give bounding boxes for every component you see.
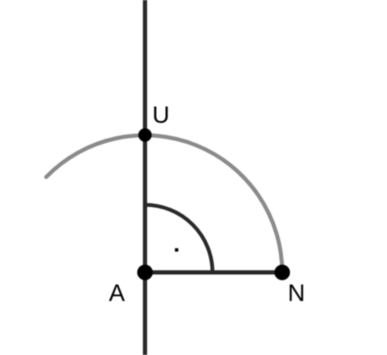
svg-text:A: A [109, 280, 125, 307]
segment A N [145, 270, 282, 274]
point U [138, 128, 151, 141]
svg-text:U: U [152, 102, 169, 129]
gray circle arc centered at A through U and N [46, 135, 282, 272]
point N [274, 265, 290, 281]
vertical line through A and U [143, 0, 147, 355]
angle dot [175, 248, 178, 251]
right-angle arc at A [145, 205, 213, 273]
point A [137, 265, 153, 281]
svg-text:N: N [288, 280, 305, 307]
